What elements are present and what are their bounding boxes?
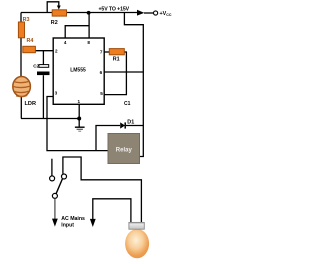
- svg-text:+5V TO +15V: +5V TO +15V: [99, 7, 130, 13]
- svg-text:Relay: Relay: [116, 148, 133, 154]
- svg-text:1: 1: [78, 99, 81, 104]
- svg-text:+VCC: +VCC: [160, 11, 172, 17]
- svg-text:3: 3: [55, 91, 58, 96]
- svg-text:D1: D1: [127, 119, 134, 125]
- svg-text:C2: C2: [33, 63, 39, 68]
- svg-text:8: 8: [87, 40, 90, 45]
- svg-text:R4: R4: [27, 38, 34, 44]
- svg-text:5: 5: [100, 91, 103, 96]
- svg-text:R2: R2: [51, 20, 58, 26]
- svg-text:2: 2: [55, 49, 58, 54]
- svg-text:C1: C1: [124, 101, 131, 107]
- svg-text:R1: R1: [113, 56, 120, 62]
- svg-text:4: 4: [64, 40, 67, 45]
- svg-text:7: 7: [100, 49, 103, 54]
- svg-text:LM555: LM555: [70, 68, 86, 74]
- svg-text:Input: Input: [61, 223, 74, 229]
- svg-text:AC Mains: AC Mains: [61, 216, 85, 222]
- svg-text:6: 6: [100, 70, 103, 75]
- svg-text:R3: R3: [23, 17, 30, 23]
- svg-text:LDR: LDR: [25, 101, 37, 107]
